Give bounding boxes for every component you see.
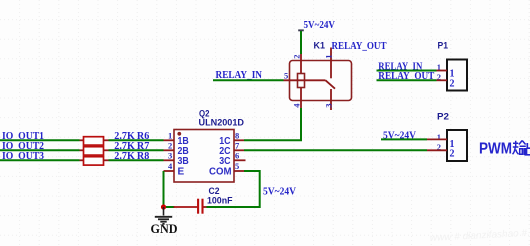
- pin 5 stub: [234, 170, 244, 172]
- junction node: [161, 204, 166, 209]
- svg-text:COM: COM: [209, 167, 232, 178]
- relay common pin 5 (left): [284, 79, 326, 81]
- pin 7 stub: [234, 149, 244, 151]
- svg-text:RELAY_OUT: RELAY_OUT: [332, 41, 387, 52]
- wire Q2 pin E down to ground node: [163, 171, 165, 207]
- wire IO_OUT1: [0, 139, 80, 141]
- pin 3 stub: [164, 159, 175, 161]
- pin 8 stub: [234, 139, 244, 141]
- P1 pin 1 stub: [437, 70, 448, 72]
- wire R8 to Q2 pin 3: [109, 159, 164, 161]
- capacitor C2: [174, 186, 233, 214]
- svg-text:ULN2001D: ULN2001D: [199, 118, 245, 129]
- faint watermark: [430, 227, 530, 244]
- relay body: [290, 61, 352, 101]
- pin 1 stub: [164, 139, 175, 141]
- R7 right terminal: [104, 149, 109, 151]
- C2 left plate: [197, 199, 199, 214]
- svg-text:2.7K R8: 2.7K R8: [114, 151, 149, 162]
- glyph chu (output char 2): [525, 140, 530, 155]
- wire IO_OUT3: [0, 159, 80, 161]
- relay bottom fixed contact: [330, 89, 332, 110]
- wire IO_OUT2: [0, 149, 80, 151]
- wire R7 to Q2 pin 2: [109, 149, 164, 151]
- svg-text:5V~24V: 5V~24V: [263, 187, 297, 198]
- R6 body: [84, 137, 104, 145]
- relay coil rectangle: [298, 74, 305, 88]
- power port 5V~24V (top): [298, 20, 335, 31]
- svg-text:5: 5: [284, 71, 288, 81]
- svg-text:8: 8: [235, 131, 239, 141]
- svg-text:1: 1: [323, 55, 333, 59]
- wire capacitor to COM pin 5: [207, 171, 260, 207]
- P2 pin 1 stub: [427, 138, 447, 140]
- svg-text:2: 2: [168, 141, 172, 151]
- svg-text:P2: P2: [437, 112, 449, 123]
- svg-text:5V~24V: 5V~24V: [304, 20, 336, 31]
- svg-text:3: 3: [323, 104, 333, 108]
- wire 5V~24V to P2 pin 1: [381, 138, 427, 140]
- P2 body: [447, 130, 467, 161]
- wire relay coil bottom to Q2 pin 8: [244, 108, 301, 140]
- IC Q2 ULN2001D: [164, 109, 246, 183]
- R6 right terminal: [104, 139, 109, 141]
- pin 1 dot: [177, 132, 181, 136]
- relay coil pin bottom: [300, 88, 302, 109]
- R7 body: [84, 147, 104, 155]
- glyph shu (output char 1): [513, 141, 527, 155]
- wire RELAY_IN to relay pin 5: [213, 79, 284, 81]
- text PWM output label: [479, 140, 530, 157]
- R8 body: [84, 157, 104, 165]
- resistor R7: [80, 141, 164, 155]
- relay coil pin top stub: [300, 54, 302, 74]
- wire RELAY_IN to P1 pin 1: [377, 70, 437, 72]
- relay top fixed contact: [330, 48, 332, 79]
- svg-text:PWM: PWM: [479, 141, 512, 158]
- svg-text:2: 2: [450, 78, 455, 89]
- wire Q2 pin 7 to P2 pin 2: [244, 149, 427, 151]
- wire ground node to capacitor: [166, 206, 175, 208]
- R7 left terminal: [80, 149, 84, 151]
- ground GND: [151, 207, 178, 236]
- pin 4 stub: [164, 170, 175, 172]
- resistor R8: [80, 151, 164, 165]
- svg-text:1: 1: [437, 132, 441, 142]
- C2 right lead: [204, 206, 207, 208]
- svg-text:E: E: [178, 167, 185, 178]
- svg-text:P1: P1: [438, 40, 449, 51]
- svg-text:K1: K1: [314, 40, 326, 51]
- P1 body: [447, 60, 467, 91]
- relay switch blade: [326, 80, 336, 88]
- wire RELAY_OUT to P1 pin 2: [377, 79, 437, 81]
- pin 6 stub: [234, 159, 246, 161]
- wire 5V~24V to relay coil: [300, 31, 302, 54]
- C2 left lead: [174, 206, 198, 208]
- svg-text:2: 2: [450, 149, 455, 160]
- svg-text:3B: 3B: [178, 156, 189, 167]
- svg-text:GND: GND: [151, 222, 178, 236]
- wire R6 to Q2 pin 1: [109, 139, 164, 141]
- connector P2: [427, 112, 467, 162]
- connector P1: [437, 40, 468, 90]
- R6 left terminal: [80, 139, 84, 141]
- relay K1 RELAY_OUT: [284, 40, 387, 110]
- resistor R6: [80, 131, 164, 145]
- svg-text:100nF: 100nF: [207, 196, 233, 207]
- P1 pin 2 stub: [437, 79, 448, 81]
- pin 2 stub: [164, 149, 175, 151]
- svg-text:5: 5: [235, 161, 239, 171]
- C2 right plate: [201, 199, 203, 214]
- svg-text:3: 3: [168, 151, 172, 161]
- P2 pin 2 stub: [427, 149, 447, 151]
- R8 left terminal: [80, 159, 84, 161]
- svg-text:6: 6: [235, 151, 239, 161]
- svg-text:1: 1: [168, 131, 172, 141]
- svg-text:3C: 3C: [219, 156, 230, 167]
- chip body: [174, 130, 234, 183]
- svg-text:2: 2: [291, 55, 301, 59]
- R8 right terminal: [104, 159, 109, 161]
